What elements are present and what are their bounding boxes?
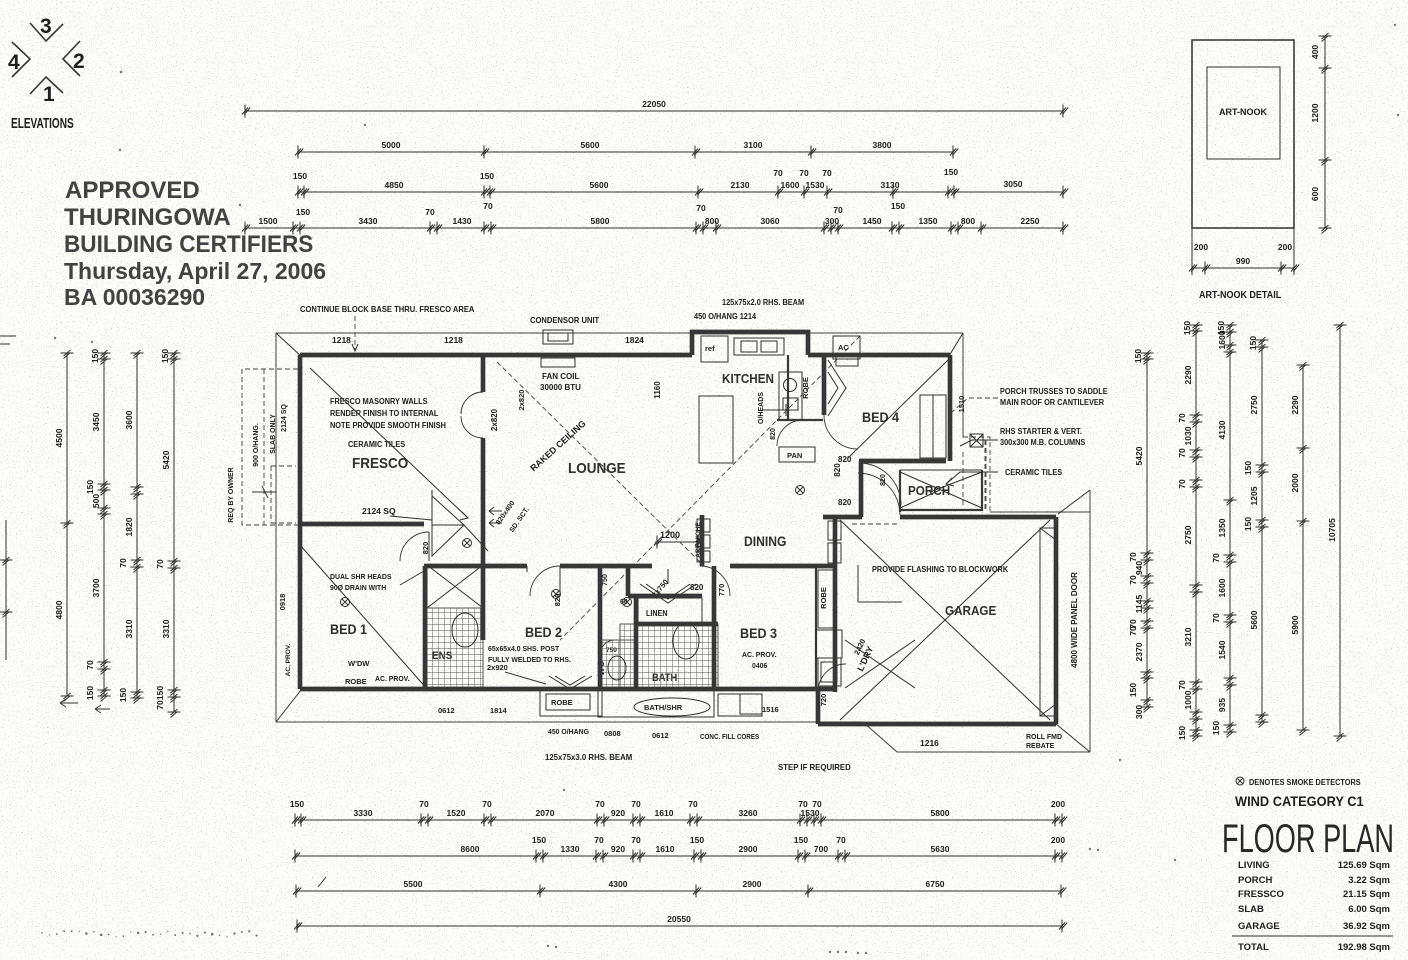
svg-text:1600: 1600 [1217,330,1227,349]
svg-text:150: 150 [155,686,165,700]
svg-text:2370: 2370 [1134,642,1144,661]
svg-text:1530: 1530 [801,808,820,818]
svg-text:990: 990 [1236,256,1250,266]
svg-text:1820: 1820 [124,517,134,536]
svg-text:3260: 3260 [739,808,758,818]
svg-text:20550: 20550 [667,914,691,924]
svg-text:1330: 1330 [561,844,580,854]
svg-text:70: 70 [1211,553,1221,563]
svg-text:1824: 1824 [625,335,644,345]
svg-text:0612: 0612 [438,706,455,715]
svg-text:FRESSCO: FRESSCO [1238,889,1284,900]
svg-text:ROBE: ROBE [551,698,573,707]
svg-text:5800: 5800 [931,808,950,818]
svg-text:DUAL SHR HEADS: DUAL SHR HEADS [330,572,392,581]
svg-text:8600: 8600 [461,844,480,854]
svg-text:1145: 1145 [1134,595,1144,614]
svg-text:4300: 4300 [609,879,628,889]
svg-text:150: 150 [891,201,905,211]
svg-text:2900: 2900 [739,844,758,854]
svg-text:TOTAL: TOTAL [1238,942,1269,953]
svg-text:30000 BTU: 30000 BTU [540,383,581,392]
svg-text:3600: 3600 [124,410,134,429]
svg-text:70: 70 [833,205,843,215]
svg-text:800: 800 [705,216,719,226]
svg-text:3430: 3430 [359,216,378,226]
svg-text:150: 150 [1248,336,1258,350]
svg-text:70: 70 [836,835,846,845]
svg-text:1510: 1510 [957,396,966,413]
svg-text:ART-NOOK DETAIL: ART-NOOK DETAIL [1199,290,1281,302]
svg-text:BED 3: BED 3 [740,625,777,641]
svg-text:REBATE: REBATE [1026,743,1055,750]
svg-text:AC. PROV.: AC. PROV. [742,650,777,659]
svg-text:BED 4: BED 4 [862,409,900,425]
svg-text:200: 200 [1278,242,1292,252]
svg-text:4800: 4800 [54,600,64,619]
svg-text:6.00 Sqm: 6.00 Sqm [1348,904,1390,915]
svg-text:2130: 2130 [731,180,750,190]
svg-text:150: 150 [480,171,494,181]
svg-text:2x820: 2x820 [490,408,499,431]
svg-text:300: 300 [1134,705,1144,719]
svg-text:STEP IF REQUIRED: STEP IF REQUIRED [778,763,851,772]
svg-text:BUILDING CERTIFIERS: BUILDING CERTIFIERS [64,230,313,257]
svg-text:BED 1: BED 1 [330,621,368,637]
svg-text:GARAGE: GARAGE [1238,921,1280,932]
svg-text:1200: 1200 [1310,103,1320,122]
svg-text:4850: 4850 [385,180,404,190]
svg-text:70: 70 [85,660,95,670]
svg-text:DINING: DINING [744,533,786,549]
svg-text:150: 150 [1182,321,1192,335]
svg-text:920: 920 [611,808,625,818]
svg-text:90Ø DRAIN WITH: 90Ø DRAIN WITH [330,583,386,592]
svg-text:450 O/HANG: 450 O/HANG [548,727,589,736]
svg-text:65x65x4.0 SHS. POST: 65x65x4.0 SHS. POST [488,644,560,653]
svg-text:150: 150 [290,799,304,809]
svg-text:450 O/HANG 1214: 450 O/HANG 1214 [694,312,757,321]
svg-text:21.15 Sqm: 21.15 Sqm [1343,889,1390,900]
svg-text:3: 3 [40,15,52,38]
svg-text:150: 150 [1133,349,1143,363]
svg-text:150: 150 [160,349,170,363]
svg-text:3800: 3800 [873,140,892,150]
svg-text:5000: 5000 [382,140,401,150]
svg-text:4500: 4500 [54,428,64,447]
svg-text:150: 150 [1177,726,1187,740]
svg-text:1600: 1600 [1217,578,1227,597]
svg-text:70: 70 [773,168,783,178]
svg-text:1814: 1814 [490,706,508,715]
svg-text:70: 70 [631,835,641,845]
svg-text:125x75x3.0 RHS. BEAM: 125x75x3.0 RHS. BEAM [545,753,632,762]
svg-text:300x300 M.B. COLUMNS: 300x300 M.B. COLUMNS [1000,438,1085,447]
svg-text:1610: 1610 [656,844,675,854]
svg-text:3130: 3130 [881,180,900,190]
svg-text:200: 200 [1051,799,1065,809]
svg-text:AC. PROV.: AC. PROV. [375,674,410,683]
svg-text:150: 150 [293,171,307,181]
svg-text:0612: 0612 [652,731,669,740]
svg-text:1500: 1500 [259,216,278,226]
svg-text:1430: 1430 [453,216,472,226]
svg-text:192.98 Sqm: 192.98 Sqm [1338,942,1390,953]
svg-text:5800: 5800 [591,216,610,226]
svg-text:3050: 3050 [1004,179,1023,189]
svg-text:70: 70 [688,799,698,809]
svg-text:THURINGOWA: THURINGOWA [64,204,231,231]
svg-text:150: 150 [944,167,958,177]
svg-text:400: 400 [1310,45,1320,59]
svg-text:22050: 22050 [642,99,666,109]
svg-text:5500: 5500 [404,879,423,889]
svg-text:2x820: 2x820 [517,390,526,411]
svg-text:ART-NOOK: ART-NOOK [1219,107,1267,117]
svg-text:3100: 3100 [744,140,763,150]
svg-text:900 O/HANG.: 900 O/HANG. [253,423,260,467]
svg-text:2124 SQ: 2124 SQ [362,506,396,516]
svg-text:2: 2 [73,50,85,73]
svg-text:70: 70 [696,203,706,213]
svg-text:1610: 1610 [655,808,674,818]
svg-text:150: 150 [1128,683,1138,697]
svg-text:FLOOR PLAN: FLOOR PLAN [1222,817,1394,861]
svg-text:600: 600 [1310,187,1320,201]
svg-text:1160: 1160 [653,381,662,399]
svg-text:150: 150 [794,835,808,845]
svg-text:LOUNGE: LOUNGE [568,460,626,477]
svg-text:820: 820 [690,583,704,592]
svg-text:1450: 1450 [863,216,882,226]
svg-text:1600: 1600 [781,180,800,190]
svg-text:4800 WIDE PANEL DOOR: 4800 WIDE PANEL DOOR [1070,572,1079,668]
svg-text:1216: 1216 [920,738,939,748]
svg-text:2750: 2750 [1249,395,1259,414]
svg-text:3210: 3210 [1183,627,1193,646]
svg-text:150: 150 [118,688,128,702]
svg-text:5420: 5420 [161,450,171,469]
svg-text:REQ BY OWNER: REQ BY OWNER [228,467,235,523]
svg-text:3310: 3310 [161,619,171,638]
svg-text:70: 70 [1128,575,1138,585]
svg-text:1540: 1540 [1217,640,1227,659]
svg-text:AC: AC [838,343,849,352]
svg-text:2250: 2250 [1021,216,1040,226]
svg-text:FRESCO: FRESCO [352,455,408,472]
svg-text:300: 300 [825,216,839,226]
svg-text:150: 150 [690,835,704,845]
svg-text:ROLL FMD: ROLL FMD [1026,734,1062,741]
svg-text:3450: 3450 [91,412,101,431]
svg-text:0808: 0808 [604,729,621,738]
svg-text:70: 70 [1177,413,1187,423]
svg-text:ref: ref [705,344,715,353]
svg-text:1030: 1030 [1183,426,1193,445]
svg-text:CONTINUE BLOCK BASE THRU. FRES: CONTINUE BLOCK BASE THRU. FRESCO AREA [300,305,475,314]
svg-text:2750: 2750 [1183,525,1193,544]
svg-text:FAN COIL: FAN COIL [542,372,579,381]
svg-text:WIND CATEGORY C1: WIND CATEGORY C1 [1235,794,1364,809]
svg-text:70: 70 [483,201,493,211]
svg-text:3.22 Sqm: 3.22 Sqm [1348,875,1390,886]
svg-text:70: 70 [1128,552,1138,562]
svg-text:DENOTES SMOKE DETECTORS: DENOTES SMOKE DETECTORS [1249,778,1361,787]
svg-text:1205: 1205 [1249,486,1259,505]
svg-text:2x920: 2x920 [487,663,508,672]
svg-text:500: 500 [91,494,101,508]
svg-text:4: 4 [8,51,20,74]
svg-text:6750: 6750 [926,879,945,889]
svg-text:1350: 1350 [1217,518,1227,537]
svg-text:70: 70 [631,799,641,809]
svg-text:200: 200 [1051,835,1065,845]
svg-text:920: 920 [611,844,625,854]
svg-text:1520: 1520 [447,808,466,818]
svg-text:70: 70 [594,835,604,845]
svg-text:ROBE: ROBE [819,587,828,609]
svg-text:Thursday, April 27, 2006: Thursday, April 27, 2006 [64,258,326,284]
svg-text:SLAB ONLY: SLAB ONLY [270,414,277,454]
svg-text:70: 70 [1211,613,1221,623]
svg-text:5900: 5900 [1290,615,1300,634]
svg-text:2000: 2000 [1290,473,1300,492]
svg-text:940: 940 [1134,561,1144,575]
svg-text:W'DW: W'DW [348,659,370,668]
svg-text:1530: 1530 [806,180,825,190]
svg-text:CONC. FILL CORES: CONC. FILL CORES [700,734,760,741]
svg-text:ELEVATIONS: ELEVATIONS [11,114,74,132]
svg-text:200: 200 [1194,242,1208,252]
svg-text:3060: 3060 [761,216,780,226]
svg-text:1: 1 [43,83,55,106]
svg-text:125.69 Sqm: 125.69 Sqm [1338,860,1390,871]
svg-text:2290: 2290 [1290,395,1300,414]
svg-text:CONDENSOR UNIT: CONDENSOR UNIT [530,316,599,325]
svg-text:0918: 0918 [278,594,287,611]
svg-text:LINEN: LINEN [646,609,668,618]
svg-text:5630: 5630 [931,844,950,854]
svg-text:APPROVED: APPROVED [65,177,200,204]
svg-text:MAIN ROOF OR CANTILEVER: MAIN ROOF OR CANTILEVER [1000,398,1105,407]
svg-text:CERAMIC TILES: CERAMIC TILES [348,440,405,449]
svg-text:2900: 2900 [743,879,762,889]
svg-text:SLAB: SLAB [1238,904,1264,915]
svg-text:70: 70 [155,700,165,710]
svg-text:BA 00036290: BA 00036290 [64,284,205,310]
svg-text:935: 935 [1217,698,1227,712]
svg-text:BED 2: BED 2 [525,624,562,640]
svg-text:150: 150 [1243,461,1253,475]
svg-text:70: 70 [799,168,809,178]
svg-text:720: 720 [819,694,828,707]
svg-text:3310: 3310 [124,619,134,638]
svg-text:NOTE PROVIDE SMOOTH FINISH: NOTE PROVIDE SMOOTH FINISH [330,421,446,430]
svg-text:ROBE: ROBE [345,677,367,686]
svg-text:700: 700 [814,844,828,854]
svg-text:750: 750 [602,574,609,586]
svg-text:70: 70 [1128,626,1138,636]
svg-text:800: 800 [961,216,975,226]
svg-text:150: 150 [532,835,546,845]
svg-text:125x75x2.0 RHS. BEAM: 125x75x2.0 RHS. BEAM [722,298,804,307]
svg-text:150: 150 [85,480,95,494]
svg-text:3700: 3700 [91,578,101,597]
svg-text:70: 70 [118,558,128,568]
svg-text:GARAGE: GARAGE [945,603,996,618]
svg-text:70: 70 [482,799,492,809]
svg-text:PAN: PAN [787,451,802,460]
svg-text:820: 820 [833,463,842,477]
svg-text:36.92 Sqm: 36.92 Sqm [1343,921,1390,932]
svg-text:2124 SQ: 2124 SQ [281,404,288,432]
svg-text:2070: 2070 [536,808,555,818]
svg-text:150: 150 [1243,517,1253,531]
svg-text:O/HEADS: O/HEADS [758,392,765,424]
svg-text:70: 70 [822,168,832,178]
svg-text:770: 770 [717,584,726,597]
svg-text:4130: 4130 [1217,420,1227,439]
svg-text:150: 150 [85,686,95,700]
svg-text:70: 70 [425,207,435,217]
svg-text:2290: 2290 [1183,365,1193,384]
svg-text:150: 150 [90,349,100,363]
svg-text:70: 70 [1177,448,1187,458]
svg-text:1516: 1516 [762,705,779,714]
svg-text:70: 70 [155,559,165,569]
svg-text:820: 820 [838,498,852,507]
svg-text:1350: 1350 [919,216,938,226]
svg-text:70: 70 [419,799,429,809]
svg-text:10705: 10705 [1327,518,1337,542]
svg-text:5600: 5600 [1249,610,1259,629]
svg-text:5420: 5420 [1134,446,1144,465]
svg-text:BATH/SHR: BATH/SHR [644,703,683,712]
svg-text:820: 820 [770,428,777,440]
svg-text:AC. PROV.: AC. PROV. [285,643,292,676]
svg-text:70: 70 [1177,479,1187,489]
svg-text:5600: 5600 [581,140,600,150]
svg-text:1218: 1218 [444,335,463,345]
svg-text:RENDER FINISH TO INTERNAL: RENDER FINISH TO INTERNAL [330,409,439,418]
svg-text:70: 70 [1177,680,1187,690]
svg-text:RHS STARTER & VERT.: RHS STARTER & VERT. [1000,427,1082,436]
svg-text:PORCH TRUSSES TO SADDLE: PORCH TRUSSES TO SADDLE [1000,387,1108,396]
svg-text:150: 150 [296,207,310,217]
svg-text:70: 70 [595,799,605,809]
svg-text:1000: 1000 [1183,690,1193,709]
svg-text:0406: 0406 [752,661,767,670]
svg-text:KITCHEN: KITCHEN [722,371,774,386]
svg-text:1218: 1218 [332,335,351,345]
svg-text:CERAMIC TILES: CERAMIC TILES [1005,468,1062,477]
svg-text:5600: 5600 [590,180,609,190]
svg-text:PORCH: PORCH [1238,875,1272,886]
svg-text:150: 150 [1211,721,1221,735]
svg-text:LIVING: LIVING [1238,860,1270,871]
svg-text:3330: 3330 [354,808,373,818]
